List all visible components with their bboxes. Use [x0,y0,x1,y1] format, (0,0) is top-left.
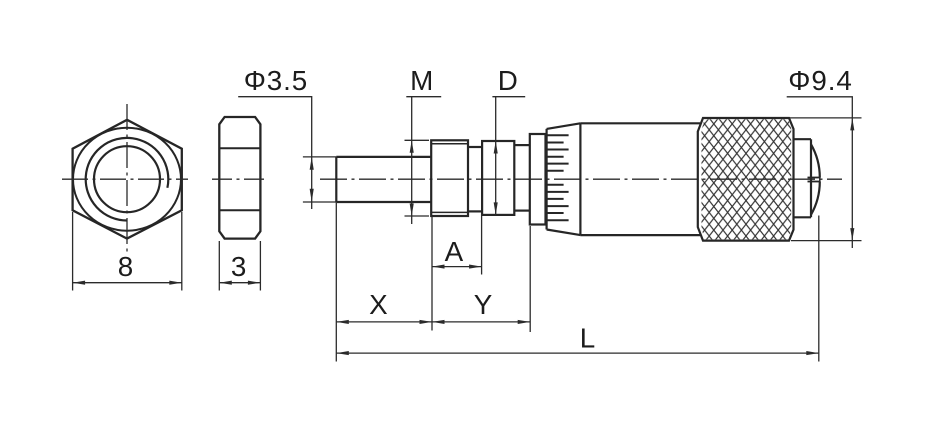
hex nut front view: horizontal centerline [62,178,188,180]
thimble body outline [580,123,700,235]
dimension D: label text [498,65,518,96]
dimension 8: text [118,251,133,282]
svg-text:3: 3 [231,251,246,282]
hex nut front view: vertical centerline [126,104,128,252]
dimension M: label text [410,65,433,96]
dimension PHI3.5: label text [244,65,308,96]
dimension M: extension lines [405,140,430,216]
extension line at thread start (X/Y/A shared) [431,217,433,331]
svg-text:D: D [498,65,518,96]
dimension 8: extension lines [73,212,182,291]
dimension 3: dimension line with arrows [219,281,260,285]
svg-text:A: A [445,236,464,267]
thimble graduation ticks [547,135,569,220]
dimension PHI9.4: leader underline and dimension line with arrows [787,97,855,248]
svg-text:Φ3.5: Φ3.5 [244,65,308,96]
collar before thimble bevel [530,134,546,225]
dimension L: dimension line with arrows [336,351,819,355]
hex nut side view: outline with chamfered corners [219,117,260,239]
svg-text:L: L [580,323,595,354]
threaded section outline [431,140,468,216]
step after D section [514,145,530,211]
dimension X: text [369,289,388,320]
svg-text:8: 8 [118,251,133,282]
dimension PHI3.5: leader underline and dimension line [238,97,314,209]
thimble bevel cone outline [547,123,581,235]
knurl cross-hatch fill [702,119,792,239]
spindle outline [336,157,431,202]
D cylindrical section outline [482,141,514,215]
svg-text:Φ9.4: Φ9.4 [788,65,852,96]
svg-text:Y: Y [474,289,493,320]
dimension X: dimension line with arrows [336,320,432,324]
dimension PHI9.4: label text [788,65,852,96]
dimension PHI3.5: extension lines [303,157,336,202]
hex nut front view: hole circle [94,146,160,212]
dimension A: dimension line with arrows [432,265,482,269]
hex nut front view: chamfer circle [73,128,181,231]
extension line at collar (Y right) [529,226,531,332]
dimension Y: text [474,289,493,320]
thread minor diameter lines [431,144,468,213]
dimension 3: extension lines [219,241,260,291]
step behind knurl [794,139,812,217]
relief groove neck [468,147,482,211]
extension line at screw head (L right) [818,216,820,362]
extension line at spindle end (X/L left) [335,203,337,362]
hex nut side view: horizontal centerline [212,178,265,180]
main view: axis centerline [320,178,842,180]
hex nut side view: chamfer boundary lines [219,148,260,210]
dimension L: text [580,323,595,354]
dimension D: leader underline and dimension line with arrows [492,97,525,215]
svg-text:M: M [410,65,433,96]
hex nut front view: hexagon outline [73,120,182,239]
dimension 8: dimension line with arrows [73,281,182,285]
screwdriver slot [808,178,820,182]
dimension 3: text [231,251,246,282]
dimension M: leader underline and dimension line [406,97,441,224]
hex nut front view: thread major arc (3/4) [86,138,169,221]
extension line at neck end (A right) [481,214,483,275]
slotted screw head arcs [811,144,820,214]
knurled collar outline [698,118,794,241]
dimension Y: dimension line with arrows [432,320,530,324]
dimension A: text [445,236,464,267]
svg-text:X: X [369,289,388,320]
dimension PHI9.4: extension lines [790,118,862,241]
